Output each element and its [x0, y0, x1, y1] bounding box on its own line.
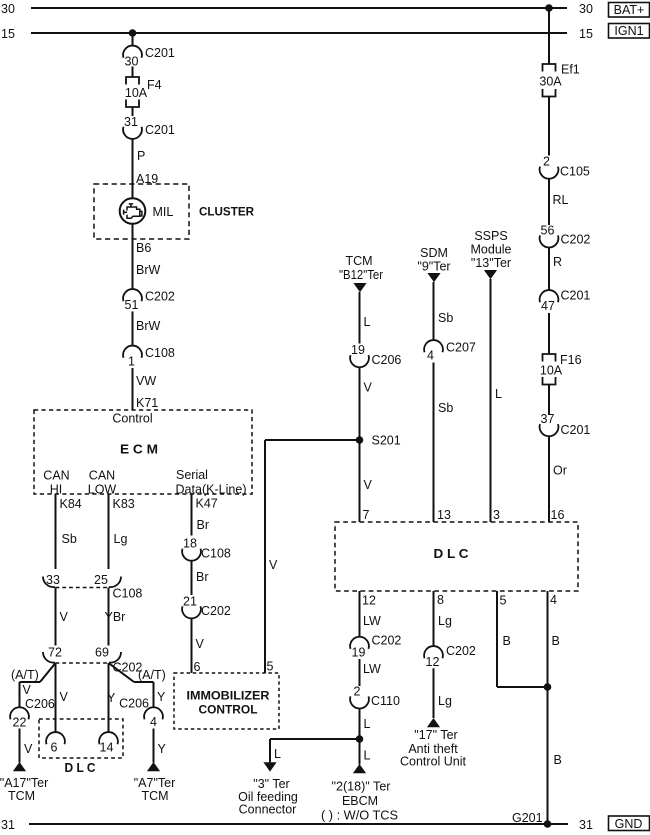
svg-text:C202: C202 [145, 290, 175, 304]
junction G201 [544, 820, 552, 828]
svg-text:Sb: Sb [438, 311, 453, 325]
fuse F16 10A [540, 353, 582, 385]
fuse F4 10A [125, 77, 162, 107]
connector C201 pin 47 [540, 289, 591, 314]
svg-text:K84: K84 [60, 497, 82, 511]
wire - ground rail 31 [29, 823, 568, 825]
svg-text:LW: LW [363, 662, 381, 676]
svg-text:19: 19 [351, 343, 365, 357]
svg-text:69: 69 [95, 646, 109, 660]
wire [548, 178, 550, 225]
connector C108 pin 1 [123, 346, 175, 369]
svg-text:MIL: MIL [153, 205, 174, 219]
wire [191, 494, 193, 536]
svg-text:Lg: Lg [438, 614, 452, 628]
svg-text:"B12"Ter: "B12"Ter [339, 268, 383, 282]
svg-text:Br: Br [197, 518, 210, 532]
net GND box [609, 816, 650, 831]
svg-text:V: V [269, 558, 278, 572]
svg-text:15: 15 [579, 27, 593, 41]
svg-text:"17" Ter: "17" Ter [414, 728, 457, 742]
DLC module box [335, 522, 578, 591]
connector C201 pin 30 [123, 46, 175, 69]
ECM module box [34, 410, 252, 494]
junction - rail 15 to MIL feed [129, 29, 137, 37]
svg-text:VW: VW [136, 374, 156, 388]
svg-text:V: V [24, 742, 33, 756]
svg-text:5: 5 [267, 660, 274, 674]
wire - ignition feed rail 15 [31, 32, 567, 34]
svg-text:C110: C110 [371, 694, 400, 708]
connector C207 pin 4 [424, 340, 476, 362]
svg-text:Y: Y [157, 690, 166, 704]
svg-text:25: 25 [94, 573, 108, 587]
svg-text:C201: C201 [145, 46, 175, 60]
wire [132, 139, 134, 199]
svg-text:30: 30 [1, 2, 15, 16]
wire [548, 97, 550, 156]
svg-text:1: 1 [128, 355, 135, 369]
wire [497, 686, 548, 688]
wire [269, 739, 271, 762]
svg-text:YBr: YBr [105, 610, 126, 624]
svg-text:6: 6 [51, 741, 58, 755]
svg-text:C202: C202 [372, 634, 402, 648]
svg-text:L: L [364, 315, 371, 329]
svg-text:51: 51 [125, 298, 139, 312]
svg-text:TCM: TCM [141, 789, 168, 803]
svg-text:"9"Ter: "9"Ter [417, 260, 450, 274]
immobilizer control box [174, 673, 279, 729]
svg-text:30: 30 [579, 2, 593, 16]
wire [55, 494, 57, 569]
connector C206 pin 4 [119, 697, 163, 730]
connector C201 pin 37 [540, 412, 591, 437]
svg-text:SSPS: SSPS [474, 229, 507, 243]
svg-text:8: 8 [437, 593, 444, 607]
svg-text:C206: C206 [372, 353, 402, 367]
svg-text:LW: LW [363, 614, 381, 628]
svg-text:Lg: Lg [114, 532, 128, 546]
wire - splice S201 to immobilizer [265, 439, 360, 441]
svg-text:7: 7 [363, 508, 370, 522]
svg-text:"2(18)" Ter: "2(18)" Ter [332, 780, 391, 794]
svg-text:Ef1: Ef1 [561, 63, 580, 77]
svg-text:C206: C206 [25, 697, 55, 711]
wire [108, 663, 110, 733]
svg-text:31: 31 [579, 818, 593, 832]
wire [547, 591, 549, 824]
junction - EBCM / oil feeding splice [356, 735, 364, 743]
svg-text:K71: K71 [136, 396, 158, 410]
svg-text:EBCM: EBCM [342, 794, 378, 808]
svg-text:V: V [196, 637, 205, 651]
svg-text:"3" Ter: "3" Ter [253, 777, 289, 791]
svg-text:L: L [495, 387, 502, 401]
svg-text:C202: C202 [561, 233, 591, 247]
svg-text:12: 12 [362, 594, 376, 608]
arrow to anti theft control unit [427, 718, 440, 727]
svg-text:5: 5 [500, 594, 507, 608]
off-page arrow to TCM A7 [147, 762, 160, 771]
svg-text:K83: K83 [113, 497, 135, 511]
wire [108, 588, 110, 646]
wire [132, 368, 134, 410]
svg-text:4: 4 [427, 349, 434, 363]
wire [132, 224, 134, 290]
wire [548, 313, 550, 354]
svg-text:V: V [23, 683, 32, 697]
svg-text:L: L [364, 717, 371, 731]
svg-text:B: B [554, 753, 562, 767]
svg-text:"A17"Ter: "A17"Ter [0, 776, 48, 790]
wire [132, 312, 134, 347]
svg-text:( ) : W/O TCS: ( ) : W/O TCS [321, 809, 398, 823]
svg-text:S201: S201 [372, 434, 401, 448]
svg-text:Or: Or [553, 464, 567, 478]
svg-text:CAN: CAN [89, 469, 115, 483]
svg-text:SDM: SDM [420, 246, 448, 260]
junction - rail 30 to DLC feed [545, 4, 553, 12]
svg-text:L: L [274, 747, 281, 761]
svg-text:13: 13 [437, 508, 451, 522]
wire [264, 440, 266, 673]
wire [433, 668, 435, 718]
arrow to oil feeding connector [263, 762, 276, 771]
wire [55, 588, 57, 646]
connector DLC pin 6 [46, 732, 65, 754]
wire [20, 681, 41, 683]
svg-text:(A/T): (A/T) [11, 668, 39, 682]
svg-text:BrW: BrW [136, 263, 161, 277]
wire [270, 738, 360, 740]
svg-text:2: 2 [354, 684, 361, 698]
junction - DLC grounds [544, 683, 552, 691]
svg-text:33: 33 [46, 573, 60, 587]
svg-text:37: 37 [541, 412, 555, 426]
connector C202 pin 19 [350, 634, 401, 660]
svg-text:G201: G201 [512, 811, 543, 825]
svg-text:Connector: Connector [239, 803, 297, 817]
svg-text:56: 56 [541, 223, 555, 237]
svg-text:3: 3 [493, 508, 500, 522]
svg-text:BAT+: BAT+ [614, 3, 645, 17]
svg-text:D L C: D L C [65, 760, 97, 775]
svg-text:2: 2 [543, 155, 550, 169]
svg-text:19: 19 [352, 646, 366, 660]
svg-text:D L C: D L C [434, 546, 470, 561]
connector C108 pin 18 [182, 537, 231, 561]
wire [108, 494, 110, 569]
svg-text:C108: C108 [113, 587, 143, 601]
svg-text:GND: GND [615, 817, 643, 831]
svg-text:12: 12 [426, 655, 440, 669]
svg-text:Sb: Sb [62, 532, 77, 546]
wire [132, 33, 134, 47]
svg-text:TCM: TCM [8, 789, 35, 803]
svg-text:C105: C105 [560, 164, 590, 178]
svg-text:CLUSTER: CLUSTER [199, 205, 254, 219]
svg-text:31: 31 [1, 818, 15, 832]
svg-text:18: 18 [183, 537, 197, 551]
wire [359, 591, 361, 638]
svg-text:Br: Br [196, 570, 209, 584]
svg-text:R: R [553, 255, 562, 269]
svg-text:15: 15 [1, 27, 15, 41]
svg-text:C202: C202 [446, 644, 476, 658]
svg-text:V: V [364, 381, 373, 395]
connector DLC pin 14 [99, 732, 118, 754]
wire [132, 107, 134, 116]
svg-text:B: B [552, 634, 560, 648]
connector C202 pins 72/69 [43, 646, 142, 675]
off-page arrow from SDM 9 [427, 273, 440, 282]
svg-text:Data(K-Line): Data(K-Line) [176, 483, 247, 497]
svg-text:22: 22 [13, 716, 27, 730]
svg-text:IGN1: IGN1 [614, 24, 643, 38]
arrow to EBCM [353, 764, 366, 773]
svg-text:14: 14 [100, 741, 114, 755]
off-page arrow to TCM A17 [13, 762, 26, 771]
wire [191, 618, 193, 673]
svg-text:LOW: LOW [88, 483, 117, 497]
svg-text:(A/T): (A/T) [138, 668, 166, 682]
wire [490, 279, 492, 522]
svg-text:P: P [137, 149, 145, 163]
svg-text:V: V [364, 478, 373, 492]
svg-text:4: 4 [150, 715, 157, 729]
wire [548, 385, 550, 415]
connector C108 pins 33/25 [43, 573, 142, 601]
svg-text:47: 47 [541, 299, 555, 313]
svg-text:Serial: Serial [176, 468, 208, 482]
MIL lamp U1 [120, 198, 174, 224]
svg-text:B6: B6 [136, 241, 151, 255]
connector C206 pin 22 [10, 697, 55, 730]
cluster module box [94, 184, 189, 239]
wire - A/T branch diagonal (left) [40, 663, 56, 682]
wire [153, 729, 155, 763]
wire [191, 560, 193, 595]
svg-text:K47: K47 [196, 497, 218, 511]
connector C202 pin 51 [123, 289, 175, 312]
svg-text:6: 6 [194, 660, 201, 674]
wire [134, 681, 154, 683]
svg-text:E C M: E C M [120, 442, 158, 457]
svg-text:Control Unit: Control Unit [400, 755, 467, 769]
wire [359, 739, 361, 765]
wire [433, 282, 435, 341]
junction S201 [356, 436, 364, 444]
svg-text:"13"Ter: "13"Ter [471, 256, 511, 270]
wire [55, 663, 57, 733]
wire [548, 247, 550, 291]
wire [548, 436, 550, 523]
svg-text:C206: C206 [119, 697, 149, 711]
wire [359, 708, 361, 739]
off-page arrow from TCM B12 [353, 283, 366, 292]
svg-text:C201: C201 [145, 123, 175, 137]
wire [433, 591, 435, 647]
connector C202 pin 12 [424, 644, 476, 669]
svg-text:BrW: BrW [136, 319, 161, 333]
svg-text:V: V [60, 610, 69, 624]
wire [359, 659, 361, 686]
svg-text:C108: C108 [201, 546, 231, 560]
svg-text:RL: RL [553, 193, 569, 207]
svg-text:Y: Y [158, 742, 167, 756]
svg-text:31: 31 [124, 115, 138, 129]
wire [153, 682, 155, 708]
svg-text:C108: C108 [145, 346, 175, 360]
wire [496, 591, 498, 687]
svg-text:CAN: CAN [43, 469, 69, 483]
svg-text:Y: Y [107, 691, 116, 705]
svg-text:C207: C207 [446, 341, 476, 355]
wire [19, 729, 21, 763]
connector C201 pin 31 [123, 115, 175, 139]
connector C202 pin 21 [182, 594, 231, 618]
svg-text:30A: 30A [539, 74, 562, 88]
off-page arrow from SSPS 13 [484, 270, 497, 279]
svg-text:72: 72 [48, 646, 62, 660]
svg-text:C202: C202 [201, 604, 231, 618]
svg-text:Module: Module [471, 243, 512, 257]
svg-text:B: B [503, 634, 511, 648]
svg-text:"A7"Ter: "A7"Ter [134, 776, 176, 790]
svg-text:4: 4 [550, 593, 557, 607]
svg-text:Lg: Lg [438, 694, 452, 708]
svg-text:L: L [364, 749, 371, 763]
wire [359, 292, 361, 344]
fuse Ef1 30A [539, 63, 579, 97]
wire [359, 367, 361, 523]
net IGN1 box [609, 24, 650, 39]
connector C206 pin 19 [350, 343, 401, 367]
wire [19, 682, 21, 708]
connector C110 pin 2 [350, 684, 400, 708]
svg-text:30: 30 [125, 55, 139, 69]
svg-text:C201: C201 [561, 289, 591, 303]
svg-text:10A: 10A [125, 86, 148, 100]
svg-text:Control: Control [112, 412, 152, 426]
svg-text:16: 16 [551, 508, 565, 522]
connector C202 pin 56 [540, 223, 591, 247]
svg-text:F4: F4 [147, 78, 162, 92]
svg-text:Sb: Sb [438, 401, 453, 415]
wire [132, 67, 134, 78]
svg-text:TCM: TCM [345, 254, 372, 268]
svg-text:CONTROL: CONTROL [199, 703, 258, 717]
svg-text:F16: F16 [560, 353, 582, 367]
wire [433, 363, 435, 523]
svg-text:21: 21 [183, 594, 197, 608]
wire [548, 8, 550, 64]
wire - battery feed rail 30 [31, 7, 567, 9]
wire - A/T branch diagonal (right) [109, 663, 135, 682]
connector C105 pin 2 [540, 155, 590, 179]
DLC connector face box [39, 719, 123, 758]
svg-text:V: V [60, 690, 69, 704]
svg-text:C201: C201 [561, 423, 591, 437]
svg-text:IMMOBILIZER: IMMOBILIZER [187, 689, 270, 703]
net BAT+ box [609, 3, 650, 18]
